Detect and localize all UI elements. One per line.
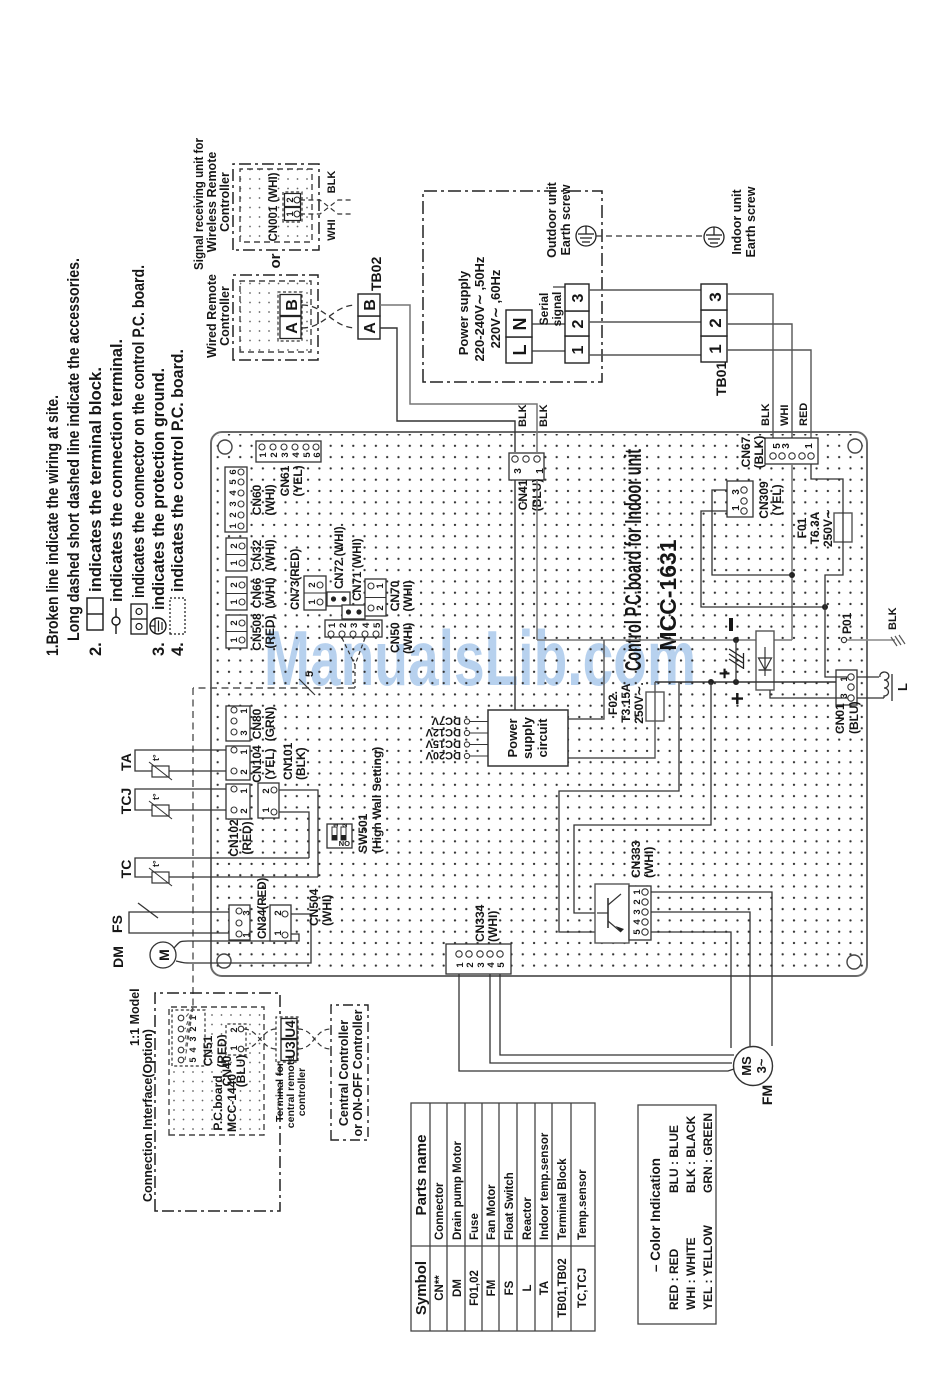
svg-text:L: L <box>522 1284 534 1291</box>
svg-text:TCJ: TCJ <box>118 788 134 814</box>
svg-text:1: 1 <box>261 807 272 813</box>
svg-text:2: 2 <box>465 962 476 967</box>
svg-text:BLK: BLK <box>326 171 338 194</box>
svg-text:CN51: CN51 <box>201 1035 215 1066</box>
wire accessory dashed bus <box>193 687 355 689</box>
svg-text:Central Controller: Central Controller <box>337 1020 351 1126</box>
svg-text:4.: 4. <box>169 642 187 656</box>
connection terminal symbol <box>115 608 117 634</box>
label minus <box>729 618 733 631</box>
wire earth dashed <box>596 235 704 237</box>
svg-text:t°: t° <box>151 793 161 800</box>
svg-text:3~: 3~ <box>754 1058 769 1073</box>
svg-text:2: 2 <box>342 823 349 827</box>
svg-text:CN73(RED): CN73(RED) <box>290 548 302 610</box>
svg-text:3: 3 <box>706 292 725 301</box>
svg-text:CN50: CN50 <box>388 622 402 653</box>
svg-text:TA: TA <box>118 753 134 771</box>
svg-text:DC12V: DC12V <box>425 726 461 738</box>
junction WHI/CN309 <box>789 572 795 578</box>
svg-text:(WHI): (WHI) <box>642 847 656 878</box>
svg-text:Wired Remote: Wired Remote <box>205 274 219 358</box>
svg-text:Power: Power <box>505 718 520 757</box>
svg-text:2.: 2. <box>87 642 105 656</box>
svg-text:Signal receiving unit for: Signal receiving unit for <box>192 138 206 270</box>
connector CN309 <box>727 481 784 519</box>
svg-text:or: or <box>267 253 284 268</box>
svg-text:Connection Interface(Option): Connection Interface(Option) <box>141 1029 155 1202</box>
svg-text:Power supply: Power supply <box>456 270 471 355</box>
capacitor branch wire <box>735 640 737 682</box>
svg-text:(YEL): (YEL) <box>770 484 784 515</box>
svg-text:2: 2 <box>375 605 386 610</box>
svg-text:2: 2 <box>239 808 250 813</box>
svg-text:1: 1 <box>229 599 240 605</box>
svg-text:1: 1 <box>239 749 250 755</box>
protection ground symbol <box>150 618 166 634</box>
svg-text:– Color Indication: – Color Indication <box>648 1158 663 1272</box>
transistor Q01 <box>595 884 629 943</box>
svg-text:t°: t° <box>151 754 161 761</box>
svg-text:5: 5 <box>228 479 239 485</box>
connector CN73 <box>304 576 326 610</box>
1:1 model box <box>155 993 280 1211</box>
wire CN333 pin1 to FM <box>651 892 772 1046</box>
wire P01 junction to CN01 pin1 <box>825 607 848 677</box>
svg-text:CN102: CN102 <box>227 819 241 857</box>
svg-text:DC15V: DC15V <box>425 738 461 750</box>
connector CN104 <box>226 745 277 783</box>
svg-text:TA: TA <box>539 1281 551 1295</box>
svg-text:FS: FS <box>109 915 125 933</box>
svg-text:RED : RED: RED : RED <box>667 1248 681 1310</box>
svg-text:BLK : BLACK: BLK : BLACK <box>684 1115 698 1193</box>
svg-text:CN80: CN80 <box>250 708 264 739</box>
svg-text:Earth screw: Earth screw <box>744 186 758 257</box>
svg-text:CN333: CN333 <box>629 840 643 878</box>
connector CN101 <box>258 742 308 818</box>
svg-text:1: 1 <box>228 523 239 529</box>
svg-text:DC20V: DC20V <box>425 749 461 761</box>
wire CN309 pin1 net <box>701 511 825 607</box>
control P.C. board for indoor unit (PCB outline) <box>211 432 867 976</box>
wire CN333 pin5 to FM <box>651 932 731 1048</box>
svg-text:indicates the control P.C. boa: indicates the control P.C. board. <box>169 349 187 592</box>
svg-text:5: 5 <box>632 929 643 935</box>
svg-text:CN32: CN32 <box>250 539 264 570</box>
svg-text:CN60: CN60 <box>250 484 264 515</box>
svg-text:Parts name: Parts name <box>413 1135 430 1216</box>
svg-text:U4: U4 <box>283 1020 298 1038</box>
svg-text:F01,02: F01,02 <box>469 1270 481 1306</box>
svg-text:CN309: CN309 <box>757 481 771 519</box>
svg-text:1: 1 <box>307 599 318 605</box>
svg-text:Long dashed short dashed line: Long dashed short dashed line indicate t… <box>65 258 83 641</box>
connector CN504 <box>270 888 334 941</box>
svg-text:MCC-1631: MCC-1631 <box>655 539 681 650</box>
svg-text:CN40: CN40 <box>220 1055 234 1086</box>
svg-text:CN72 (WHI): CN72 (WHI) <box>334 526 346 589</box>
wire CN50 dashed fan <box>342 638 365 688</box>
svg-text:WHI: WHI <box>779 405 791 426</box>
svg-text:2: 2 <box>229 543 240 548</box>
svg-text:2: 2 <box>228 512 239 517</box>
svg-text:DM: DM <box>452 1279 464 1297</box>
svg-text:TC: TC <box>118 860 134 879</box>
svg-text:2: 2 <box>338 623 349 628</box>
svg-text:1: 1 <box>239 788 250 794</box>
dip switch SW501 <box>327 747 384 853</box>
svg-text:SW501: SW501 <box>356 813 370 853</box>
connector CN102 <box>226 784 254 857</box>
svg-text:3: 3 <box>731 489 742 495</box>
svg-text:(RED): (RED) <box>263 615 277 648</box>
sensor TA <box>118 750 234 780</box>
svg-text:Controller: Controller <box>218 286 232 346</box>
connector CN61 <box>256 441 323 497</box>
svg-text:1: 1 <box>239 708 250 714</box>
wire remote-TB02 crossing dashed <box>302 305 356 328</box>
svg-text:1.Broken line indicate the wir: 1.Broken line indicate the wiring at sit… <box>44 395 62 656</box>
svg-text:CN71 (WHI): CN71 (WHI) <box>352 538 364 601</box>
connector CN508 <box>226 613 277 651</box>
svg-text:(BLK): (BLK) <box>294 747 308 780</box>
svg-text:B: B <box>284 299 301 311</box>
svg-text:L: L <box>895 683 910 691</box>
svg-text:CN67: CN67 <box>739 436 753 467</box>
svg-text:CN70: CN70 <box>388 580 402 611</box>
svg-text:4: 4 <box>291 452 302 458</box>
svg-text:3.: 3. <box>150 642 168 656</box>
svg-text:RED: RED <box>798 403 810 426</box>
svg-text:(YEL): (YEL) <box>263 748 277 779</box>
svg-text:T3.15A: T3.15A <box>619 683 633 723</box>
svg-text:1: 1 <box>375 583 386 589</box>
svg-text:CN504: CN504 <box>307 888 321 926</box>
svg-text:1: 1 <box>333 823 340 827</box>
note line 1 <box>44 258 187 656</box>
svg-text:Earth screw: Earth screw <box>559 184 573 255</box>
svg-text:BLK: BLK <box>887 607 899 630</box>
svg-text:3: 3 <box>349 623 360 628</box>
main vertical DC line <box>655 682 851 687</box>
wired remote controller label <box>205 274 232 358</box>
signal receiving unit label <box>192 138 232 270</box>
P.C. board MCC-1440 box <box>169 1007 264 1135</box>
reactor L <box>857 672 910 701</box>
svg-text:Outdoor unit: Outdoor unit <box>545 181 559 258</box>
wire L1 power to transistor <box>559 682 679 932</box>
connector CN41 <box>509 453 546 511</box>
connector CN40 <box>220 1024 248 1087</box>
float switch FS <box>109 903 234 933</box>
svg-text:ON: ON <box>339 839 350 848</box>
fuse F01 <box>795 509 852 547</box>
wire CN41 pin3 to power supply circuit <box>514 480 516 710</box>
wire CN333 pin3 to FM <box>651 912 750 1046</box>
DC output terminals <box>470 722 488 757</box>
svg-text:Float Switch: Float Switch <box>504 1172 516 1240</box>
svg-text:(RED): (RED) <box>240 821 254 854</box>
mounting hole top-left <box>217 954 231 968</box>
connector CN334 <box>446 904 511 974</box>
connector CN51 <box>172 1010 229 1068</box>
connector CN333 <box>629 840 656 940</box>
wire TB01-1 to CN67 pin1 RED <box>727 350 811 451</box>
sensor TC <box>118 858 318 886</box>
svg-text:CN334: CN334 <box>473 904 487 942</box>
wire ps2-TB01 <box>589 321 701 323</box>
connector CN66 <box>226 577 277 610</box>
svg-text:+: + <box>725 692 750 705</box>
svg-text:3: 3 <box>513 468 524 474</box>
junction cap/AC <box>733 637 739 643</box>
svg-text:Fan Motor: Fan Motor <box>486 1184 498 1240</box>
connector CN60 <box>225 467 277 532</box>
connector A B (wired remote) <box>278 292 302 341</box>
svg-text:signal: signal <box>550 292 564 327</box>
svg-text:BLK: BLK <box>760 403 772 426</box>
svg-text:TC,TCJ: TC,TCJ <box>577 1268 589 1308</box>
parts table <box>411 1103 595 1331</box>
svg-text:CN001 (WHI): CN001 (WHI) <box>268 172 280 241</box>
wire TB01-3 to CN67 pin5 BLK <box>727 294 773 451</box>
svg-text:Indoor temp.sensor: Indoor temp.sensor <box>539 1132 551 1240</box>
svg-text:2: 2 <box>273 910 284 915</box>
svg-text:4: 4 <box>228 490 239 496</box>
svg-text:2: 2 <box>706 318 725 327</box>
svg-text:(WHI): (WHI) <box>263 539 277 570</box>
wire L2 main to transistor <box>574 682 711 913</box>
svg-text:A: A <box>362 322 379 334</box>
svg-text:1: 1 <box>535 468 546 474</box>
svg-text:250V∼: 250V∼ <box>821 509 835 547</box>
bus slash 5 <box>299 679 315 695</box>
power supply circuit box <box>488 710 568 766</box>
svg-text:2: 2 <box>229 620 240 625</box>
terminal block symbol <box>87 598 103 630</box>
fuse F02 <box>606 682 664 723</box>
svg-text:BLU : BLUE: BLU : BLUE <box>667 1125 681 1193</box>
svg-text:4: 4 <box>361 622 372 628</box>
terminal label <box>274 1056 308 1129</box>
svg-text:2: 2 <box>307 582 318 587</box>
junction cap branch <box>733 679 739 685</box>
wire CN67 pin1 through F01 <box>811 464 843 607</box>
wire F02 net <box>568 682 655 758</box>
connector CN67 <box>739 436 818 469</box>
wire CN41 pin1 to AC line <box>536 480 538 640</box>
power supply label <box>456 256 503 361</box>
svg-text:2: 2 <box>570 319 587 328</box>
svg-text:2: 2 <box>229 1027 239 1032</box>
indoor earth screw <box>704 227 724 247</box>
svg-text:3: 3 <box>632 909 643 914</box>
wire diode to CN01 pin3 <box>770 690 848 698</box>
connector CN32 <box>226 538 277 571</box>
svg-text:FM: FM <box>486 1280 498 1297</box>
svg-text:4: 4 <box>632 919 643 925</box>
junction L2 <box>708 679 714 685</box>
svg-text:WHI : WHITE: WHI : WHITE <box>684 1237 698 1310</box>
central controller box <box>331 1005 368 1140</box>
svg-text:2: 2 <box>261 788 272 793</box>
parts table rows <box>434 1132 589 1318</box>
svg-text:1: 1 <box>242 932 253 938</box>
svg-text:P01: P01 <box>840 612 854 634</box>
svg-text:indicates the terminal block.: indicates the terminal block. <box>87 367 105 592</box>
connector CN70 <box>365 579 415 616</box>
svg-text:circuit: circuit <box>535 718 550 758</box>
svg-text:(WHI): (WHI) <box>401 623 415 654</box>
ground hatch <box>891 635 905 646</box>
svg-text:controller: controller <box>296 1068 308 1116</box>
svg-text:(WHI): (WHI) <box>320 895 334 926</box>
svg-text:t°: t° <box>151 860 161 867</box>
svg-text:CN101: CN101 <box>281 742 295 780</box>
svg-text:CN508: CN508 <box>250 613 264 651</box>
svg-text:Terminal Block: Terminal Block <box>557 1158 569 1240</box>
svg-text:BLK: BLK <box>517 404 529 427</box>
svg-text:1: 1 <box>570 345 587 354</box>
connector CN80 <box>226 706 277 741</box>
wire U3U4 to central controller crossing <box>298 1029 331 1049</box>
svg-text:supply: supply <box>520 716 535 759</box>
svg-text:1: 1 <box>273 930 284 936</box>
connector CN34 <box>229 877 269 940</box>
svg-text:(BLU): (BLU) <box>234 1055 248 1088</box>
svg-text:YEL : YELLOW: YEL : YELLOW <box>701 1224 715 1310</box>
svg-text:1: 1 <box>229 637 240 643</box>
svg-text:6: 6 <box>312 452 323 457</box>
svg-text:GRN : GREEN: GRN : GREEN <box>701 1113 715 1193</box>
svg-text:Controller: Controller <box>218 172 232 232</box>
mounting hole bottom-right <box>848 439 862 453</box>
wire ps3-TB01 <box>589 289 701 291</box>
wire CN309 pin3 net <box>712 490 792 575</box>
svg-text:250V∼.: 250V∼. <box>632 682 646 723</box>
svg-text:Indoor unit: Indoor unit <box>730 189 744 255</box>
svg-text:(High Wall Setting): (High Wall Setting) <box>370 747 384 853</box>
wire TB02 A to CN41 pin3 <box>380 328 515 452</box>
svg-text:(BLK): (BLK) <box>752 436 766 469</box>
svg-text:1: 1 <box>632 889 643 895</box>
svg-text:CN61: CN61 <box>278 465 292 496</box>
svg-text:TB02: TB02 <box>368 257 384 291</box>
wire L-1 <box>532 350 565 352</box>
svg-text:1: 1 <box>327 622 338 628</box>
svg-text:Serial: Serial <box>537 293 551 326</box>
svg-text:6: 6 <box>228 469 239 474</box>
svg-text:1: 1 <box>229 560 240 566</box>
svg-text:3: 3 <box>570 293 587 302</box>
svg-text:(YEL): (YEL) <box>291 465 305 496</box>
svg-text:F02.: F02. <box>606 691 620 715</box>
wire ps1-TB01 <box>589 354 701 356</box>
wire TB01-2 to CN67 pin3 WHI <box>727 324 792 451</box>
svg-text:1: 1 <box>804 443 815 449</box>
svg-text:5: 5 <box>304 671 316 677</box>
svg-text:CN**: CN** <box>434 1275 446 1301</box>
svg-text:L: L <box>510 345 530 356</box>
svg-text:WHI: WHI <box>326 219 338 240</box>
svg-text:MS: MS <box>739 1056 754 1076</box>
wire N-2 <box>532 323 565 325</box>
svg-text:3: 3 <box>239 730 250 735</box>
wire power box to AC line <box>568 640 604 719</box>
svg-text:1: 1 <box>229 1045 239 1050</box>
svg-text:1: 1 <box>731 505 742 511</box>
wire AC vertical <box>537 639 792 641</box>
svg-text:3: 3 <box>242 910 253 915</box>
svg-text:BLK: BLK <box>538 404 550 427</box>
svg-text:(WHI): (WHI) <box>401 580 415 611</box>
wire CN40-U3U4 crossing dashed <box>244 1029 276 1049</box>
svg-text:CN41: CN41 <box>516 479 530 510</box>
terminal L N <box>506 310 532 363</box>
svg-text:Wireless Remote: Wireless Remote <box>205 152 219 253</box>
svg-text:FM: FM <box>759 1085 775 1105</box>
mounting hole bottom-left <box>847 955 861 969</box>
terminal block TB02 <box>358 257 384 339</box>
wire wireless crossing dashed <box>300 200 352 214</box>
svg-text:FS: FS <box>504 1280 516 1295</box>
svg-text:(WHI): (WHI) <box>263 577 277 608</box>
svg-text:Symbol: Symbol <box>413 1261 430 1315</box>
capacitor hatch symbol <box>729 649 744 669</box>
svg-text:indicates the connection termi: indicates the connection terminal. <box>108 339 126 602</box>
svg-text:indicates the connector on the: indicates the connector on the control P… <box>130 265 148 598</box>
drain pump motor DM <box>110 914 311 968</box>
svg-text:5: 5 <box>188 1057 198 1062</box>
svg-text:4: 4 <box>188 1047 198 1052</box>
wire WHI net CN67 pin3 <box>791 464 793 640</box>
svg-text:DM: DM <box>110 946 126 968</box>
wire dashed fan to CN51 <box>185 1008 193 1060</box>
svg-text:B: B <box>362 299 379 311</box>
wireless remote controller box <box>233 164 319 250</box>
svg-text:T6.3A: T6.3A <box>808 511 822 544</box>
svg-text:1: 1 <box>706 344 725 353</box>
wire CN334 pin5 to FM <box>500 974 734 1055</box>
svg-text:5: 5 <box>372 622 383 628</box>
power supply box <box>423 191 602 382</box>
jumper CN71 <box>342 605 365 619</box>
outdoor earth screw <box>576 226 596 246</box>
svg-text:3: 3 <box>188 1036 198 1041</box>
svg-text:Connector: Connector <box>434 1182 446 1240</box>
diode D01 <box>756 631 774 690</box>
svg-text:Control P.C.board for Indoor u: Control P.C.board for Indoor unit <box>620 449 646 671</box>
svg-text:2: 2 <box>229 582 240 587</box>
svg-text:5: 5 <box>496 962 507 968</box>
svg-text:+: + <box>715 668 736 679</box>
svg-text:3: 3 <box>228 501 239 506</box>
connector symbol <box>131 604 147 634</box>
svg-text:1: 1 <box>258 452 269 458</box>
svg-text:indicates the protection groun: indicates the protection ground. <box>150 368 168 610</box>
svg-text:N: N <box>510 318 530 331</box>
svg-text:M: M <box>156 949 172 961</box>
svg-text:TB01,TB02: TB01,TB02 <box>557 1258 569 1317</box>
connector CN50 <box>325 620 415 654</box>
svg-text:(BLU): (BLU) <box>847 701 861 734</box>
wire TC-CN101 <box>279 812 309 858</box>
svg-text:CN104: CN104 <box>250 745 264 783</box>
test point P01 <box>841 637 846 642</box>
svg-text:F01: F01 <box>795 517 809 538</box>
connector CN01 <box>833 670 861 734</box>
